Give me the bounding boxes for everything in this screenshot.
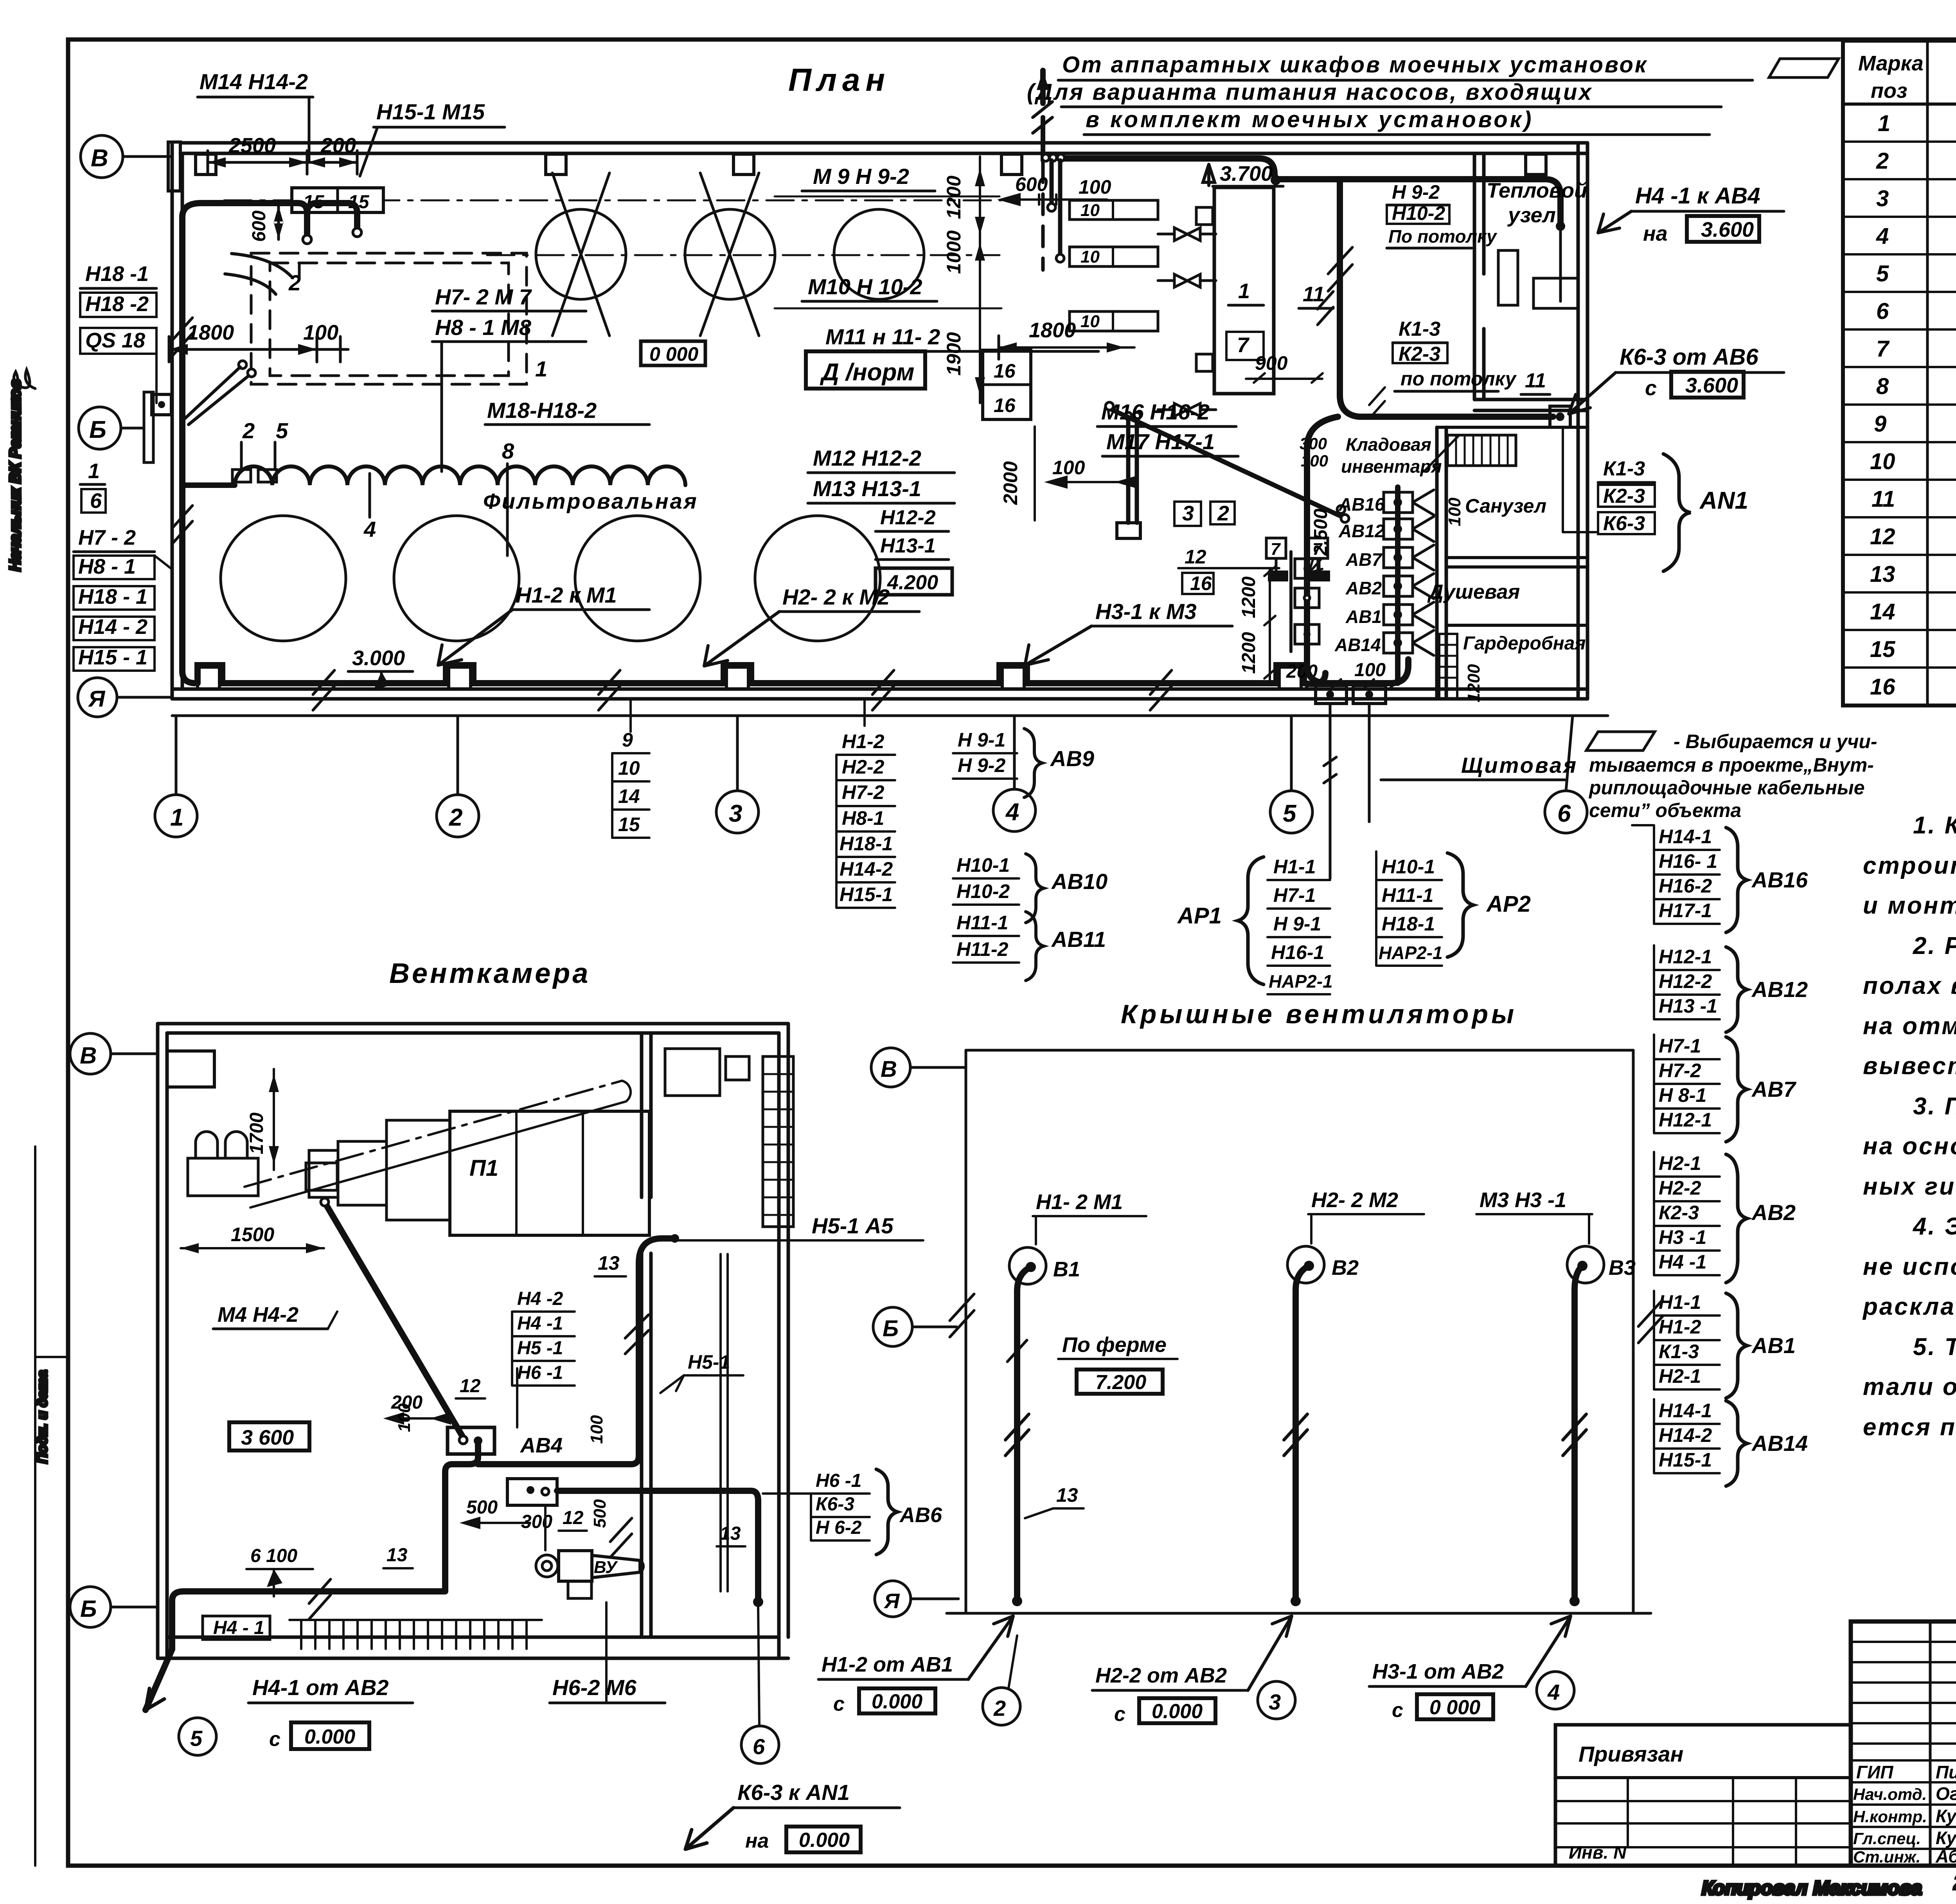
label 3.700 with up arrow — [1203, 164, 1215, 185]
svg-text:Н 9-2: Н 9-2 — [958, 754, 1005, 776]
svg-text:Б: Б — [883, 1316, 899, 1341]
supply dashed vertical — [1040, 70, 1046, 103]
svg-text:7: 7 — [1271, 540, 1281, 559]
cable: top-left run with stubs M14 M15 — [201, 203, 307, 234]
svg-text:по потолку: по потолку — [1400, 368, 1517, 390]
title block texts — [1853, 1641, 1956, 1867]
svg-text:Я: Я — [883, 1589, 900, 1613]
svg-text:15: 15 — [618, 813, 640, 835]
svg-text:4. Электрооборудование и со: 4. Электрооборудование и соответствующие… — [1912, 1213, 1956, 1240]
svg-text:16: 16 — [994, 394, 1016, 416]
ladder Гардеробная — [1439, 634, 1457, 699]
svg-text:Н14-1: Н14-1 — [1659, 1400, 1712, 1422]
stack АВ6 — [816, 1470, 862, 1538]
svg-text:В2: В2 — [1332, 1256, 1359, 1280]
svg-text:ВУ: ВУ — [594, 1558, 618, 1577]
svg-text:Н11-1: Н11-1 — [956, 912, 1008, 934]
diagonal double feed line — [184, 367, 240, 419]
svg-text:Н13 -1: Н13 -1 — [1659, 995, 1717, 1017]
svg-text:600: 600 — [249, 211, 270, 242]
svg-text:Н3-1 к М3: Н3-1 к М3 — [1095, 599, 1197, 624]
svg-text:К2-3: К2-3 — [1603, 485, 1645, 507]
svg-text:Н2-2: Н2-2 — [842, 756, 885, 778]
svg-text:2500: 2500 — [228, 134, 276, 157]
title block — [1851, 1621, 1956, 1866]
svg-text:0.000: 0.000 — [872, 1690, 922, 1713]
wall Teplovoy uzel bottom — [1474, 398, 1587, 401]
left margin signature — [12, 370, 35, 399]
svg-text:16: 16 — [1870, 674, 1895, 700]
annotation parallelogram — [1769, 59, 1839, 77]
svg-text:Н8 - 1: Н8 - 1 — [78, 555, 136, 578]
left signature grid — [1929, 1621, 1932, 1866]
svg-text:К1-3: К1-3 — [1659, 1341, 1699, 1362]
svg-text:тали от краев безнапорных: тали от краев безнапорных гидроциклонов … — [1863, 1373, 1956, 1400]
group АВ7 — [1659, 1035, 1712, 1131]
pair verticals М12/М13 down — [1126, 419, 1131, 523]
break marks frame — [950, 1294, 974, 1337]
svg-text:3.700: 3.700 — [1220, 162, 1273, 185]
16/16 cells — [983, 350, 1031, 419]
svg-text:Н7 - 2: Н7 - 2 — [78, 526, 136, 549]
svg-text:15: 15 — [1870, 637, 1895, 662]
svg-text:1200: 1200 — [1464, 664, 1483, 702]
svg-text:Н6-2 М6: Н6-2 М6 — [552, 1675, 637, 1700]
svg-text:100: 100 — [303, 321, 338, 344]
svg-text:АВ7: АВ7 — [1345, 549, 1383, 570]
svg-text:Н16-2: Н16-2 — [1659, 875, 1712, 897]
column circle 6 — [1545, 791, 1587, 833]
column circle 1 — [155, 795, 197, 837]
svg-text:1200: 1200 — [1239, 632, 1259, 674]
svg-text:Н.контр.: Н.контр. — [1853, 1807, 1927, 1826]
svg-text:сети” объекта: сети” объекта — [1589, 799, 1741, 821]
wall stub above axis B — [168, 142, 180, 191]
svg-text:10: 10 — [1080, 247, 1100, 266]
svg-text:3 600: 3 600 — [241, 1426, 294, 1449]
svg-text:11: 11 — [1303, 283, 1325, 306]
break on lower run — [610, 1518, 632, 1557]
svg-text:1800: 1800 — [187, 321, 234, 344]
svg-text:Огурцов: Огурцов — [1936, 1783, 1956, 1804]
svg-text:Н8-1: Н8-1 — [842, 807, 884, 829]
svg-text:Н12-1: Н12-1 — [1659, 1109, 1712, 1131]
svg-text:16: 16 — [1190, 572, 1212, 594]
svg-text:Н7-2: Н7-2 — [842, 781, 885, 803]
svg-text:В: В — [881, 1056, 897, 1082]
svg-text:Пивторак: Пивторак — [1936, 1762, 1956, 1782]
svg-text:Н14 - 2: Н14 - 2 — [78, 615, 147, 639]
left margin stamp line — [34, 1146, 36, 1866]
svg-text:Н16-1: Н16-1 — [1271, 941, 1324, 963]
svg-text:От аппаратных шкафов моечных: От аппаратных шкафов моечных установок — [1062, 52, 1648, 77]
svg-text:АВ10: АВ10 — [1051, 869, 1107, 894]
svg-text:не используемые при привязк: не используемые при привязке, на плане к… — [1863, 1253, 1956, 1280]
svg-text:Н 9-2: Н 9-2 — [1392, 181, 1440, 203]
svg-text:Н18-1: Н18-1 — [840, 833, 893, 855]
hydrocyclone circle 1 — [536, 209, 626, 299]
svg-text:900: 900 — [1255, 352, 1288, 374]
svg-text:1000: 1000 — [943, 230, 965, 274]
svg-text:Н4 -1: Н4 -1 — [1659, 1251, 1706, 1273]
svg-text:АВ14: АВ14 — [1334, 635, 1381, 655]
svg-text:Н3-1 от АВ2: Н3-1 от АВ2 — [1372, 1660, 1504, 1683]
axis marker В left — [70, 1033, 111, 1074]
svg-text:100: 100 — [1079, 176, 1111, 198]
svg-text:Н4 -1 к АВ4: Н4 -1 к АВ4 — [1635, 183, 1760, 209]
svg-text:Нач.отд.: Нач.отд. — [1853, 1785, 1927, 1803]
svg-text:строительным конструкциям,: строительным конструкциям, выполнить ско… — [1863, 852, 1956, 879]
big equipment rect — [1214, 187, 1274, 394]
svg-text:6: 6 — [90, 489, 102, 513]
svg-text:2: 2 — [449, 804, 462, 831]
hydrocyclone circle 3 — [834, 209, 924, 299]
svg-text:Копировал Максимова: Копировал Максимова — [1702, 1877, 1922, 1899]
ladder shaft right top — [763, 1056, 793, 1227]
svg-text:Н4 -1: Н4 -1 — [517, 1313, 563, 1334]
svg-text:13: 13 — [1870, 561, 1895, 587]
svg-text:Н1-1: Н1-1 — [1273, 856, 1316, 878]
svg-text:1: 1 — [1238, 279, 1250, 303]
svg-text:Венткамера: Венткамера — [389, 958, 590, 989]
svg-text:АВ16: АВ16 — [1751, 867, 1808, 892]
circled 5 — [179, 1718, 216, 1755]
svg-text:К1-3: К1-3 — [1603, 457, 1645, 480]
hydrocyclone circle 2 — [685, 209, 775, 299]
svg-text:АВ7: АВ7 — [1751, 1077, 1797, 1101]
svg-text:12: 12 — [1185, 546, 1206, 568]
hatched floor strip — [289, 1619, 542, 1621]
svg-text:1700: 1700 — [246, 1112, 267, 1154]
group АВ14 — [1659, 1400, 1712, 1471]
fan В3 — [1567, 1246, 1604, 1283]
svg-text:В1: В1 — [1053, 1258, 1080, 1281]
AV12 feeder — [1393, 525, 1402, 533]
svg-text:6 100: 6 100 — [250, 1546, 297, 1566]
dashed monorail rect outer — [251, 253, 527, 384]
svg-text:Кузнецов: Кузнецов — [1936, 1828, 1956, 1848]
svg-text:П1: П1 — [469, 1155, 498, 1181]
svg-text:Б: Б — [80, 1596, 97, 1622]
shelf row 2 with 10 — [1070, 247, 1158, 266]
svg-text:Кузнецов: Кузнецов — [1936, 1806, 1956, 1826]
axis dash-dot through tanks — [487, 254, 1000, 256]
valve 2 — [1158, 274, 1216, 287]
ventcam outer walls — [158, 1022, 788, 1026]
svg-text:АВ12: АВ12 — [1751, 977, 1808, 1002]
svg-text:Н15 - 1: Н15 - 1 — [78, 646, 147, 669]
svg-text:Ст.инж.: Ст.инж. — [1853, 1848, 1920, 1866]
П1 air handler unit — [450, 1111, 649, 1235]
svg-text:на основании серии 5407-7: на основании серии 5407-7 „Устройство ко… — [1863, 1133, 1956, 1160]
right corridor small rects — [665, 1049, 720, 1096]
svg-text:Н13-1: Н13-1 — [880, 534, 936, 557]
svg-text:По потолку: По потолку — [1388, 226, 1498, 247]
svg-text:2: 2 — [993, 1696, 1006, 1720]
column circle 4 — [993, 789, 1036, 831]
svg-text:АВ1: АВ1 — [1751, 1333, 1796, 1358]
svg-text:М4 Н4-2: М4 Н4-2 — [218, 1303, 298, 1326]
svg-text:Б: Б — [89, 416, 106, 443]
small room top-left — [167, 1051, 214, 1087]
label К1-3 К2-3 К6-3 }АН1 — [1562, 427, 1564, 532]
svg-text:11: 11 — [1525, 369, 1546, 392]
svg-text:3: 3 — [1876, 186, 1889, 211]
svg-text:2000: 2000 — [1000, 461, 1021, 505]
junction box right — [1550, 406, 1570, 427]
svg-text:Н12-2: Н12-2 — [1659, 970, 1712, 992]
svg-text:Н14-2: Н14-2 — [1659, 1424, 1712, 1446]
svg-text:4: 4 — [363, 517, 376, 542]
svg-text:Н7-2: Н7-2 — [1659, 1060, 1701, 1082]
svg-text:1900: 1900 — [943, 332, 965, 376]
svg-text:21181-03 8: 21181-03 8 — [1954, 1871, 1956, 1894]
7 7 connector boxes — [1266, 538, 1286, 558]
svg-text:тывается в проекте„Внут-: тывается в проекте„Внут- — [1589, 754, 1874, 776]
svg-text:5: 5 — [276, 418, 288, 443]
shelf row 3 with 10 — [1070, 311, 1158, 331]
wall: lower edge line — [172, 714, 1608, 717]
svg-text:0.000: 0.000 — [1152, 1700, 1203, 1723]
svg-text:Н2- 2 М2: Н2- 2 М2 — [1311, 1188, 1398, 1212]
column circle 3 — [716, 791, 759, 833]
svg-text:300: 300 — [1300, 434, 1327, 453]
riser lines down from boxes — [1330, 704, 1369, 878]
svg-text:Привязан: Привязан — [1578, 1742, 1683, 1766]
svg-text:Н16- 1: Н16- 1 — [1659, 850, 1717, 872]
table header — [1858, 50, 1956, 103]
svg-text:1: 1 — [88, 459, 100, 483]
fan В1 — [1009, 1247, 1046, 1284]
svg-text:100: 100 — [1052, 457, 1085, 479]
svg-text:4: 4 — [1876, 223, 1889, 249]
svg-text:Н3 -1: Н3 -1 — [1659, 1226, 1706, 1248]
svg-text:Н2-1: Н2-1 — [1659, 1365, 1701, 1387]
axis marker Б left — [70, 1587, 111, 1627]
svg-text:7: 7 — [1237, 333, 1250, 357]
svg-text:100: 100 — [587, 1415, 606, 1444]
svg-text:Санузел: Санузел — [1465, 495, 1546, 517]
svg-text:(Для варианта питания насос: (Для варианта питания насосов, входящих — [1027, 79, 1593, 105]
cross-out marks on hydrocyclone 1 — [552, 173, 609, 336]
svg-text:Н4-1 от АВ2: Н4-1 от АВ2 — [252, 1675, 389, 1700]
svg-text:Н18 -2: Н18 -2 — [85, 292, 149, 316]
svg-text:М3 Н3 -1: М3 Н3 -1 — [1480, 1188, 1566, 1212]
svg-text:АВ16: АВ16 — [1338, 494, 1385, 515]
svg-text:раскладки вычеркиваются.: раскладки вычеркиваются. — [1862, 1293, 1956, 1320]
svg-text:2. Раскладку труб для эл: 2. Раскладку труб для электропроводок в — [1913, 932, 1956, 959]
svg-text:Начальник ВК Ратников: Начальник ВК Ратников — [7, 379, 24, 571]
svg-text:13: 13 — [1056, 1484, 1078, 1506]
svg-text:0 000: 0 000 — [649, 343, 698, 365]
svg-text:Н18 - 1: Н18 - 1 — [78, 585, 147, 608]
svg-text:Н2-1: Н2-1 — [1659, 1152, 1701, 1174]
svg-text:в комплект моечных установок: в комплект моечных установок) — [1086, 107, 1534, 132]
svg-text:вывести на 100 мм над отм: вывести на 100 мм над отметкой чистого п… — [1863, 1053, 1956, 1080]
svg-text:В: В — [91, 145, 108, 172]
column squares bottom wall — [198, 667, 219, 689]
circled 3 — [1258, 1681, 1295, 1719]
svg-text:с: с — [1114, 1703, 1125, 1726]
duct bend arc top-left — [232, 254, 291, 276]
svg-text:3: 3 — [1269, 1690, 1281, 1714]
svg-text:Гл.спец.: Гл.спец. — [1853, 1829, 1921, 1848]
axis marker В — [81, 135, 123, 178]
svg-text:Н 6-2: Н 6-2 — [816, 1517, 862, 1538]
svg-text:АВ12: АВ12 — [1338, 521, 1385, 541]
svg-text:Н18 -1: Н18 -1 — [85, 262, 149, 286]
svg-text:5. Трехметровая зона по: 5. Трехметровая зона по вертикали и гори… — [1913, 1334, 1956, 1361]
svg-text:АВ11: АВ11 — [1051, 927, 1106, 952]
svg-text:Н4 -2: Н4 -2 — [517, 1289, 563, 1309]
svg-text:Н1- 2 М1: Н1- 2 М1 — [1036, 1190, 1123, 1214]
svg-text:100: 100 — [1354, 660, 1386, 680]
svg-text:2: 2 — [1217, 502, 1229, 525]
svg-text:К6-3: К6-3 — [816, 1494, 854, 1515]
svg-text:0 000: 0 000 — [1429, 1696, 1480, 1719]
svg-text:Н1-2: Н1-2 — [842, 731, 885, 752]
filter tank circle 3 — [575, 516, 700, 641]
svg-text:АN1: АN1 — [1699, 487, 1748, 514]
AV2 feeder — [1393, 582, 1402, 590]
svg-text:М11 н 11- 2: М11 н 11- 2 — [825, 324, 940, 349]
cable: drop to ceiling run — [1340, 179, 1553, 417]
group АВ16 — [1659, 826, 1717, 921]
fans frame — [966, 1049, 1633, 1052]
svg-text:риплощадочные кабельные: риплощадочные кабельные — [1588, 777, 1865, 799]
svg-text:14: 14 — [1870, 599, 1895, 624]
svg-text:100: 100 — [1445, 497, 1464, 526]
svg-text:Гардеробная: Гардеробная — [1463, 633, 1586, 654]
feeder riser — [1395, 487, 1400, 683]
svg-text:300: 300 — [521, 1512, 552, 1532]
svg-text:на: на — [1643, 222, 1668, 245]
svg-text:Н 9-1: Н 9-1 — [1273, 913, 1321, 935]
svg-text:с: с — [1392, 1699, 1403, 1722]
svg-text:4.200: 4.200 — [887, 571, 938, 594]
ВУ fan unit — [507, 1479, 557, 1505]
svg-text:4: 4 — [1005, 799, 1019, 826]
svg-text:10: 10 — [1870, 449, 1895, 474]
svg-text:Щитовая: Щитовая — [1461, 753, 1578, 777]
wall: top double — [180, 141, 1587, 145]
svg-text:и монтажной полосой с ша: и монтажной полосой с шагом не более 800… — [1863, 892, 1956, 919]
svg-text:ется пожароопасной класса: ется пожароопасной класса П-I — [1863, 1414, 1956, 1441]
AV14 feeder — [1393, 639, 1402, 647]
svg-text:3: 3 — [729, 800, 742, 827]
svg-text:0.000: 0.000 — [799, 1829, 850, 1852]
svg-text:поз: поз — [1871, 79, 1907, 103]
svg-text:АВ9: АВ9 — [1050, 746, 1094, 771]
cable loop Щитовая area — [1307, 417, 1408, 683]
svg-text:Н10-1: Н10-1 — [956, 854, 1010, 876]
group АР2 — [1379, 856, 1443, 963]
svg-text:на: на — [745, 1830, 769, 1852]
svg-text:12: 12 — [1870, 524, 1895, 549]
duct diagonal dash-dot — [244, 1081, 622, 1187]
svg-text:НАР2-1: НАР2-1 — [1379, 943, 1443, 963]
room divider Душевая/Гардеробная — [1446, 624, 1587, 627]
svg-text:инвентаря: инвентаря — [1341, 456, 1442, 477]
axis marker Я — [875, 1581, 911, 1617]
connector strip boxes on riser — [1295, 559, 1319, 578]
AV1 feeder — [1393, 610, 1402, 619]
svg-text:АВ4: АВ4 — [520, 1434, 563, 1457]
svg-text:13: 13 — [720, 1523, 741, 1544]
svg-text:Н6 -1: Н6 -1 — [517, 1362, 563, 1383]
svg-text:М14 Н14-2: М14 Н14-2 — [200, 69, 308, 94]
svg-text:Н18-1: Н18-1 — [1382, 913, 1435, 935]
svg-text:Н7-1: Н7-1 — [1273, 884, 1316, 906]
svg-text:К6-3 от АВ6: К6-3 от АВ6 — [1620, 344, 1758, 370]
label 0.000 box — [641, 341, 705, 365]
group АВ2 — [1659, 1152, 1706, 1273]
svg-text:Н1-2 к М1: Н1-2 к М1 — [516, 583, 617, 607]
stack Н1-2..Н15-1 — [840, 731, 893, 905]
AHU connection rects — [387, 1120, 450, 1220]
svg-text:8: 8 — [1876, 374, 1889, 399]
fan В2 — [1287, 1246, 1324, 1283]
svg-text:12: 12 — [460, 1376, 481, 1397]
svg-text:Н5 -1: Н5 -1 — [517, 1338, 563, 1359]
svg-text:Н15-1: Н15-1 — [1659, 1449, 1712, 1471]
svg-text:2: 2 — [242, 418, 255, 443]
svg-text:В3: В3 — [1609, 1256, 1636, 1280]
privyazan block — [1555, 1725, 1851, 1866]
svg-text:АР2: АР2 — [1486, 891, 1531, 917]
svg-text:Крышные вентиляторы: Крышные вентиляторы — [1121, 999, 1517, 1029]
svg-text:Н12-2: Н12-2 — [880, 506, 936, 529]
axis dash-dot line with 15/15 box — [224, 200, 1001, 202]
column squares top wall — [196, 154, 216, 175]
svg-text:1200: 1200 — [1239, 576, 1259, 618]
svg-text:Инв. N: Инв. N — [1569, 1842, 1627, 1863]
svg-text:9: 9 — [1874, 411, 1886, 437]
svg-text:Фильтровальная: Фильтровальная — [483, 489, 698, 513]
svg-text:с: с — [269, 1728, 280, 1751]
intake stubs — [196, 1132, 247, 1158]
svg-text:АВ6: АВ6 — [899, 1503, 942, 1527]
svg-text:К2-3: К2-3 — [1659, 1202, 1699, 1224]
svg-text:0.000: 0.000 — [304, 1726, 355, 1748]
filter tank circle 4 — [755, 516, 880, 641]
svg-text:АВ1: АВ1 — [1345, 606, 1382, 627]
svg-text:- Выбирается и учи-: - Выбирается и учи- — [1674, 731, 1877, 752]
circled 6 — [741, 1726, 779, 1764]
filter tank circle 1 — [221, 516, 346, 641]
svg-text:500: 500 — [590, 1499, 609, 1528]
svg-text:Н15-1 М15: Н15-1 М15 — [376, 99, 485, 124]
svg-text:Н8 - 1 М8: Н8 - 1 М8 — [435, 315, 532, 340]
svg-text:АР1: АР1 — [1177, 903, 1222, 929]
svg-text:Подп. и дата: Подп. и дата — [34, 1370, 50, 1463]
inner wall — [640, 1033, 644, 1197]
svg-text:АВ14: АВ14 — [1751, 1431, 1808, 1456]
svg-text:500: 500 — [466, 1497, 498, 1518]
parts table — [1843, 41, 1956, 705]
svg-text:1: 1 — [1878, 111, 1890, 136]
svg-text:Н4 - 1: Н4 - 1 — [213, 1618, 264, 1638]
svg-text:Абрамова: Абрамова — [1935, 1846, 1956, 1866]
svg-text:8: 8 — [502, 439, 514, 463]
table rows text — [1870, 111, 1956, 700]
notes text block — [1862, 812, 1956, 1441]
svg-text:QS 18: QS 18 — [85, 329, 145, 352]
svg-text:АВ2: АВ2 — [1751, 1200, 1796, 1225]
svg-text:Н11-1: Н11-1 — [1382, 884, 1433, 906]
svg-text:10: 10 — [618, 757, 640, 779]
svg-text:13: 13 — [598, 1252, 620, 1274]
